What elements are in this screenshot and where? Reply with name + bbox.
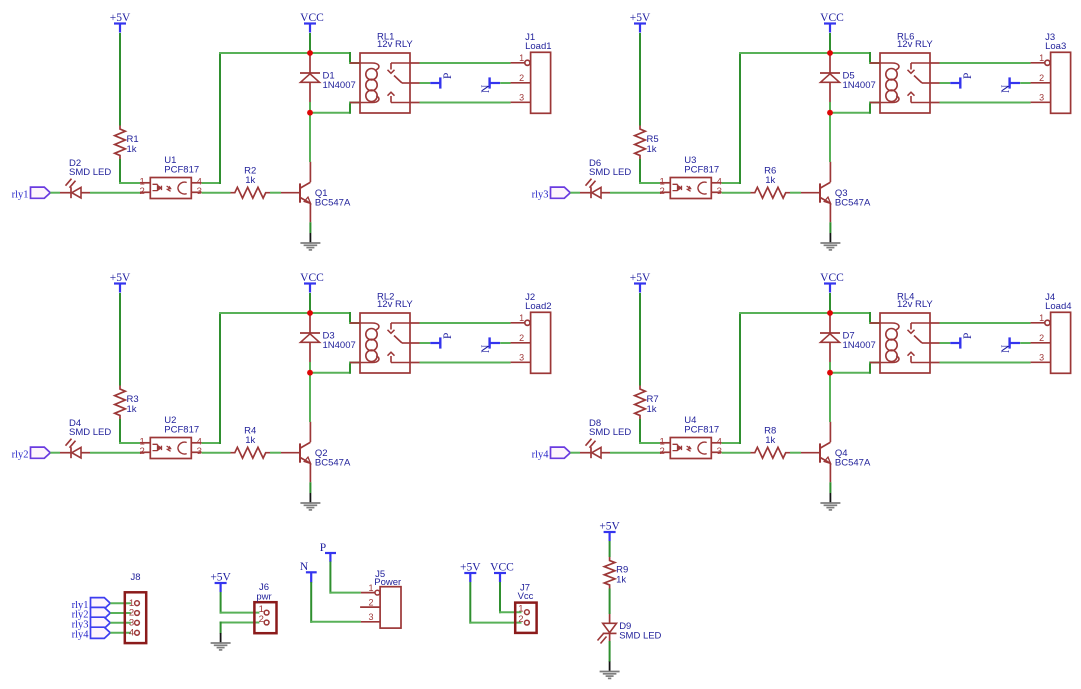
resistor R8 1k <box>751 426 791 458</box>
net flag rly1 <box>12 187 51 200</box>
wire node to RL1 coil top <box>310 52 351 54</box>
wire Q4 emitter to ground <box>829 482 831 493</box>
svg-text:1k: 1k <box>765 435 775 446</box>
svg-text:+5V: +5V <box>599 520 620 532</box>
svg-text:BC547A: BC547A <box>315 198 351 209</box>
supply N <box>480 337 500 353</box>
net flag rly3 <box>532 187 571 200</box>
svg-text:1k: 1k <box>127 404 137 415</box>
svg-text:SMD LED: SMD LED <box>619 631 661 642</box>
wire +5V to R9 <box>609 541 611 557</box>
svg-text:+5V: +5V <box>110 12 131 24</box>
wire U3 pin 3 to R6 <box>722 192 751 194</box>
wire U1 pin 3 to R2 <box>202 192 231 194</box>
wire J6 pin 2 to ground <box>220 622 260 624</box>
svg-text:1: 1 <box>518 604 523 615</box>
power +5V supply (J6) <box>210 571 231 592</box>
svg-text:Load2: Load2 <box>525 301 551 312</box>
power +5V supply (R1 rail) <box>110 12 131 33</box>
svg-text:1k: 1k <box>616 574 626 585</box>
svg-text:3: 3 <box>1039 93 1044 103</box>
svg-text:SMD LED: SMD LED <box>589 427 631 438</box>
connector J2 Load2 <box>511 292 552 373</box>
supply N <box>1000 337 1020 353</box>
wire U2 pin 3 to R4 <box>202 452 231 454</box>
net flag rly2 <box>12 447 51 460</box>
wire N to J1 pin 2 <box>500 82 511 84</box>
ground <box>820 493 840 510</box>
wire RL4 common to P <box>940 342 951 344</box>
svg-text:1N4007: 1N4007 <box>843 80 876 91</box>
wire Q3 emitter to ground <box>829 222 831 233</box>
wire N to J4 pin 2 <box>1020 342 1030 344</box>
svg-text:1: 1 <box>1039 53 1044 63</box>
wire RL6 common to P <box>940 82 951 84</box>
resistor R6 1k <box>751 166 791 198</box>
wire R1 to U1 pin 1 <box>119 159 121 183</box>
wire +5V to R7 <box>639 293 641 386</box>
wire node to RL6 coil top <box>830 52 871 54</box>
ground <box>820 233 840 250</box>
svg-text:1k: 1k <box>647 404 657 415</box>
svg-text:BC547A: BC547A <box>315 458 351 469</box>
wire R7 to U4 pin 1 <box>639 419 641 443</box>
svg-text:12v RLY: 12v RLY <box>377 39 413 50</box>
svg-text:2: 2 <box>1039 73 1044 83</box>
svg-text:BC547A: BC547A <box>835 198 871 209</box>
svg-text:N: N <box>480 344 492 353</box>
svg-text:1: 1 <box>519 53 524 63</box>
connector J1 Load1 <box>511 32 552 113</box>
svg-text:+5V: +5V <box>110 272 131 284</box>
svg-text:12v RLY: 12v RLY <box>377 299 413 310</box>
diode D7 1N4007 flyback <box>820 313 876 362</box>
wire +5V to R5 <box>639 33 641 126</box>
wire rly1 to J8 pin 1 <box>110 602 131 604</box>
svg-text:VCC: VCC <box>300 272 324 284</box>
wire +5V to R1 <box>119 33 121 126</box>
svg-text:P: P <box>442 73 454 79</box>
junction bottom node <box>307 370 313 376</box>
svg-text:1k: 1k <box>245 435 255 446</box>
led D8 SMD LED <box>580 418 631 458</box>
svg-text:VCC: VCC <box>490 561 514 573</box>
wire bottom node to RL4 coil bottom <box>830 372 871 374</box>
wire diode to bottom node <box>829 102 831 113</box>
wire R9 to D9 <box>609 589 611 615</box>
svg-text:+5V: +5V <box>460 561 481 573</box>
svg-text:4: 4 <box>129 627 134 638</box>
power VCC supply <box>820 12 844 33</box>
diode D3 1N4007 flyback <box>300 313 356 362</box>
svg-text:Power: Power <box>374 577 401 588</box>
wire VCC to node <box>829 293 831 313</box>
junction bottom node <box>307 110 313 116</box>
svg-text:+5V: +5V <box>630 12 651 24</box>
wire RL2 common to P <box>420 342 431 344</box>
svg-text:VCC: VCC <box>300 12 324 24</box>
wire rly4 flag to D8 <box>570 452 580 454</box>
supply N <box>1000 77 1020 93</box>
wire +5V to J7 pin 2 <box>469 582 471 624</box>
wire P to J5 pin 1 <box>329 562 331 594</box>
svg-text:1N4007: 1N4007 <box>323 80 356 91</box>
net flag rly4 (J8) <box>72 627 111 640</box>
svg-text:2: 2 <box>140 446 145 457</box>
svg-text:N: N <box>1000 344 1012 353</box>
svg-text:1k: 1k <box>127 144 137 155</box>
power VCC supply <box>820 272 844 293</box>
power +5V supply (R5 rail) <box>630 12 651 33</box>
svg-text:rly1: rly1 <box>12 189 29 200</box>
wire rly2 flag to D4 <box>50 452 60 454</box>
svg-text:2: 2 <box>368 598 373 608</box>
connector J4 Load4 <box>1031 292 1072 373</box>
wire bottom node to Q1 collector <box>309 113 311 162</box>
wire +5V to J6 pin 1 <box>220 592 222 614</box>
wire rly3 to J8 pin 3 <box>110 622 131 624</box>
relay RL1 12v RLY <box>350 32 420 113</box>
svg-text:PCF817: PCF817 <box>164 425 199 436</box>
svg-text:N: N <box>1000 84 1012 93</box>
wire D6 to U3 pin 2 <box>610 192 660 194</box>
net flag rly1 (J8) <box>72 598 111 611</box>
wire +5V to R3 <box>119 293 121 386</box>
power +5V supply (R7 rail) <box>630 272 651 293</box>
power VCC supply (J7) <box>490 561 514 582</box>
supply N (J5) <box>300 561 317 583</box>
junction bottom node <box>827 110 833 116</box>
svg-text:1N4007: 1N4007 <box>843 340 876 351</box>
svg-text:P: P <box>962 73 974 79</box>
svg-text:VCC: VCC <box>820 12 844 24</box>
svg-text:3: 3 <box>519 93 524 103</box>
resistor R2 1k <box>231 166 271 198</box>
svg-text:2: 2 <box>140 186 145 197</box>
wire bottom node to RL6 coil bottom <box>830 112 871 114</box>
wire U4 pin 3 to R8 <box>722 452 751 454</box>
relay RL4 12v RLY <box>870 292 940 373</box>
wire VCC to node <box>309 293 311 313</box>
junction bottom node <box>827 370 833 376</box>
wire RL6 NC contact to J3 pin 3 <box>940 102 1031 104</box>
svg-text:1N4007: 1N4007 <box>323 340 356 351</box>
svg-text:2: 2 <box>660 186 665 197</box>
wire rly2 to J8 pin 2 <box>110 612 131 614</box>
wire Q1 emitter to ground <box>309 222 311 233</box>
resistor R5 1k <box>635 126 659 160</box>
power +5V supply (R9) <box>599 520 620 541</box>
connector J8 <box>125 572 146 643</box>
wire node to RL4 coil top <box>830 312 871 314</box>
wire RL1 NC contact to J1 pin 3 <box>420 102 511 104</box>
wire U4 pin 4 to VCC node <box>722 442 741 444</box>
svg-text:12v RLY: 12v RLY <box>897 39 933 50</box>
svg-text:3: 3 <box>519 353 524 363</box>
resistor R9 1k <box>604 557 628 589</box>
net flag rly2 (J8) <box>72 607 111 620</box>
svg-text:3: 3 <box>717 186 722 197</box>
svg-text:BC547A: BC547A <box>835 458 871 469</box>
optocoupler U4 PCF817 <box>660 415 722 459</box>
svg-text:3: 3 <box>197 186 202 197</box>
led D6 SMD LED <box>580 158 631 198</box>
svg-text:rly3: rly3 <box>532 189 549 200</box>
wire U3 pin 4 to VCC node <box>722 182 741 184</box>
wire bottom node to Q2 collector <box>309 373 311 422</box>
wire RL4 NO contact to J4 pin 1 <box>940 322 1031 324</box>
wire rly3 flag to D6 <box>570 192 580 194</box>
svg-text:1: 1 <box>519 313 524 323</box>
supply P <box>430 73 454 89</box>
ground <box>300 493 320 510</box>
wire N to J2 pin 2 <box>500 342 511 344</box>
svg-text:3: 3 <box>197 446 202 457</box>
svg-text:pwr: pwr <box>256 592 271 603</box>
connector J7 Vcc <box>515 583 536 633</box>
led D2 SMD LED <box>60 158 111 198</box>
connector J5 Power <box>360 569 401 628</box>
resistor R4 1k <box>231 426 271 458</box>
svg-text:rly2: rly2 <box>12 449 29 460</box>
svg-text:12v RLY: 12v RLY <box>897 299 933 310</box>
wire diode to bottom node <box>309 362 311 373</box>
wire diode to bottom node <box>829 362 831 373</box>
optocoupler U2 PCF817 <box>140 415 202 459</box>
optocoupler U1 PCF817 <box>140 155 202 199</box>
wire R3 to U2 pin 1 <box>119 419 121 443</box>
wire rly4 to J8 pin 4 <box>110 632 131 634</box>
connector J6 pwr <box>254 582 276 633</box>
diode D1 1N4007 flyback <box>300 53 356 102</box>
svg-text:2: 2 <box>518 614 523 625</box>
ground <box>300 233 320 250</box>
net flag rly3 (J8) <box>72 617 111 630</box>
wire R2 to Q1 base <box>270 192 281 194</box>
power +5V supply (R3 rail) <box>110 272 131 293</box>
wire N to J3 pin 2 <box>1020 82 1030 84</box>
supply P <box>950 333 974 349</box>
svg-text:2: 2 <box>519 333 524 343</box>
svg-text:SMD LED: SMD LED <box>69 427 111 438</box>
wire U1 pin 4 to VCC node <box>202 182 221 184</box>
resistor R3 1k <box>115 386 139 420</box>
wire diode to bottom node <box>309 102 311 113</box>
svg-text:2: 2 <box>519 73 524 83</box>
diode D5 1N4007 flyback <box>820 53 876 102</box>
wire bottom node to RL1 coil bottom <box>310 112 351 114</box>
svg-text:1: 1 <box>368 583 373 593</box>
svg-text:3: 3 <box>717 446 722 457</box>
svg-text:Load1: Load1 <box>525 41 551 52</box>
transistor Q1 BC547A <box>281 162 351 223</box>
wire RL2 NO contact to J2 pin 1 <box>420 322 511 324</box>
wire D2 to U1 pin 2 <box>90 192 140 194</box>
junction VCC node <box>307 50 313 56</box>
wire bottom node to RL2 coil bottom <box>310 372 351 374</box>
svg-text:+5V: +5V <box>210 571 231 583</box>
resistor R1 1k <box>115 126 139 160</box>
supply N <box>480 77 500 93</box>
wire U2 pin 4 to VCC node <box>202 442 221 444</box>
net flag rly4 <box>532 447 571 460</box>
svg-text:VCC: VCC <box>820 272 844 284</box>
ground (D9) <box>600 662 620 679</box>
wire RL6 NO contact to J3 pin 1 <box>940 62 1031 64</box>
svg-text:3: 3 <box>1039 353 1044 363</box>
svg-text:N: N <box>480 84 492 93</box>
wire VCC to node <box>829 33 831 53</box>
supply P (J5) <box>320 542 336 562</box>
transistor Q4 BC547A <box>801 422 871 483</box>
svg-text:1k: 1k <box>765 175 775 186</box>
wire RL1 NO contact to J1 pin 1 <box>420 62 511 64</box>
connector J3 Loa3 <box>1031 32 1071 113</box>
junction VCC node <box>307 310 313 316</box>
wire R4 to Q2 base <box>270 452 281 454</box>
wire R5 to U3 pin 1 <box>639 159 641 183</box>
wire node to RL2 coil top <box>310 312 351 314</box>
wire RL4 NC contact to J4 pin 3 <box>940 362 1031 364</box>
wire bottom node to Q4 collector <box>829 373 831 422</box>
svg-text:+5V: +5V <box>630 272 651 284</box>
svg-text:Vcc: Vcc <box>518 591 534 602</box>
wire RL2 NC contact to J2 pin 3 <box>420 362 511 364</box>
svg-text:P: P <box>962 333 974 339</box>
optocoupler U3 PCF817 <box>660 155 722 199</box>
svg-text:2: 2 <box>259 614 264 625</box>
wire VCC to J7 pin 1 <box>499 582 501 613</box>
power +5V supply (J7) <box>460 561 481 582</box>
supply P <box>430 333 454 349</box>
power VCC supply <box>300 272 324 293</box>
svg-text:1: 1 <box>1039 313 1044 323</box>
wire D9 to ground <box>609 641 611 662</box>
svg-text:Load4: Load4 <box>1045 301 1071 312</box>
svg-text:rly4: rly4 <box>532 449 550 460</box>
supply P <box>950 73 974 89</box>
wire Q2 emitter to ground <box>309 482 311 493</box>
svg-text:3: 3 <box>368 612 373 622</box>
wire N to J5 pin 3 <box>310 582 312 623</box>
wire VCC to node <box>309 33 311 53</box>
svg-text:PCF817: PCF817 <box>684 425 719 436</box>
svg-text:J8: J8 <box>130 572 140 583</box>
wire R8 to Q4 base <box>790 452 801 454</box>
relay RL6 12v RLY <box>870 32 940 113</box>
svg-text:SMD LED: SMD LED <box>589 167 631 178</box>
svg-text:Loa3: Loa3 <box>1045 41 1066 52</box>
wire R6 to Q3 base <box>790 192 801 194</box>
svg-text:P: P <box>442 333 454 339</box>
junction VCC node <box>827 50 833 56</box>
svg-text:rly4: rly4 <box>72 629 90 640</box>
wire bottom node to Q3 collector <box>829 113 831 162</box>
transistor Q2 BC547A <box>281 422 351 483</box>
svg-text:1k: 1k <box>245 175 255 186</box>
resistor R7 1k <box>635 386 659 420</box>
junction VCC node <box>827 310 833 316</box>
svg-text:SMD LED: SMD LED <box>69 167 111 178</box>
svg-text:1k: 1k <box>647 144 657 155</box>
power VCC supply <box>300 12 324 33</box>
led D4 SMD LED <box>60 418 111 458</box>
transistor Q3 BC547A <box>801 162 871 223</box>
svg-text:PCF817: PCF817 <box>684 165 719 176</box>
svg-text:2: 2 <box>660 446 665 457</box>
ground (J6) <box>211 633 231 650</box>
wire rly1 flag to D2 <box>50 192 60 194</box>
led D9 SMD LED <box>598 614 662 644</box>
relay RL2 12v RLY <box>350 292 420 373</box>
wire RL1 common to P <box>420 82 431 84</box>
wire D4 to U2 pin 2 <box>90 452 140 454</box>
svg-text:PCF817: PCF817 <box>164 165 199 176</box>
svg-text:2: 2 <box>1039 333 1044 343</box>
wire D8 to U4 pin 2 <box>610 452 660 454</box>
